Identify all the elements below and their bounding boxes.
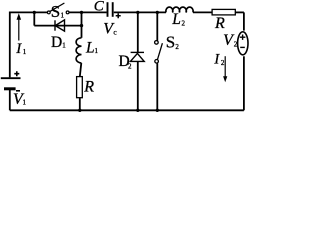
wire bottom horizontal (10, 109, 244, 111)
current arrow I1 (17, 13, 22, 40)
wire D1 branch horizontal (34, 25, 81, 27)
current arrow I2 (223, 56, 227, 82)
svg-text:S: S (51, 2, 60, 21)
source V2 plus sign (240, 35, 246, 40)
wire top-left horizontal (10, 11, 48, 13)
svg-text:2: 2 (175, 43, 179, 51)
svg-text:1: 1 (62, 41, 66, 49)
svg-text:I: I (213, 51, 220, 67)
switch S1 contacts (47, 11, 69, 14)
svg-text:2: 2 (128, 63, 132, 71)
svg-text:1: 1 (61, 12, 65, 20)
wire right vertical upper (corner to V2 source) (243, 12, 245, 30)
wire top (capacitor to L2) (114, 11, 166, 13)
switch S1 blade (50, 3, 64, 11)
svg-text:C: C (94, 0, 105, 14)
wire D2 to bottom (137, 62, 139, 111)
junction D1 branch right (80, 24, 83, 27)
battery V1 plates (1, 78, 21, 89)
wire left vertical lower (battery to bottom) (9, 90, 11, 111)
diode D1 (55, 20, 65, 31)
junction R bottom (78, 109, 81, 112)
resistor R (left) (77, 77, 83, 98)
svg-text:c: c (113, 27, 117, 36)
battery V1 minus sign (16, 90, 20, 92)
diode D2 (130, 52, 144, 61)
wire top (L2 to resistor R right) (193, 11, 212, 13)
wire S2 branch top (156, 12, 158, 40)
capacitor plus sign (116, 13, 121, 18)
svg-text:1: 1 (95, 47, 99, 55)
svg-text:S: S (166, 33, 175, 52)
battery V1 plus sign (14, 71, 19, 76)
wire node B vertical (top to L1) (81, 12, 83, 37)
junction S2 branch top (156, 11, 159, 14)
svg-text:2: 2 (221, 59, 225, 67)
svg-text:L: L (171, 11, 181, 28)
svg-text:R: R (214, 15, 225, 32)
svg-text:R: R (83, 79, 94, 96)
switch S2 contacts (155, 41, 159, 63)
wire top middle (switch right to capacitor) (69, 11, 106, 13)
junction D2 bottom (136, 109, 139, 112)
inductor L1 (76, 38, 81, 63)
svg-text:1: 1 (23, 48, 27, 56)
capacitor C plates (108, 2, 113, 17)
wire right vertical lower (V2 source to bottom) (243, 56, 245, 110)
wire L1 bottom to resistor R (80, 63, 82, 77)
resistor R (right) (212, 9, 235, 15)
wire left vertical upper (to battery) (9, 12, 11, 78)
wire resistor R to bottom (79, 98, 81, 111)
junction capacitor branch (136, 11, 139, 14)
svg-text:L: L (85, 39, 95, 56)
source V2 minus sign (240, 46, 245, 48)
svg-text:2: 2 (182, 19, 186, 27)
wire top-right (resistor to corner) (235, 11, 244, 13)
svg-text:2: 2 (234, 40, 238, 48)
junction S2 bottom (156, 109, 159, 112)
svg-text:D: D (51, 34, 62, 51)
svg-text:I: I (15, 41, 22, 57)
inductor L2 (166, 7, 193, 12)
switch S2 blade (158, 43, 163, 59)
wire S2 branch bottom (156, 63, 158, 110)
svg-text:1: 1 (23, 99, 27, 107)
wire capacitor branch drop to D2 (137, 12, 139, 52)
voltage source V2 body (238, 32, 248, 55)
junction node B (80, 11, 83, 14)
wire node A drop (33, 12, 35, 25)
junction node A (33, 11, 36, 14)
